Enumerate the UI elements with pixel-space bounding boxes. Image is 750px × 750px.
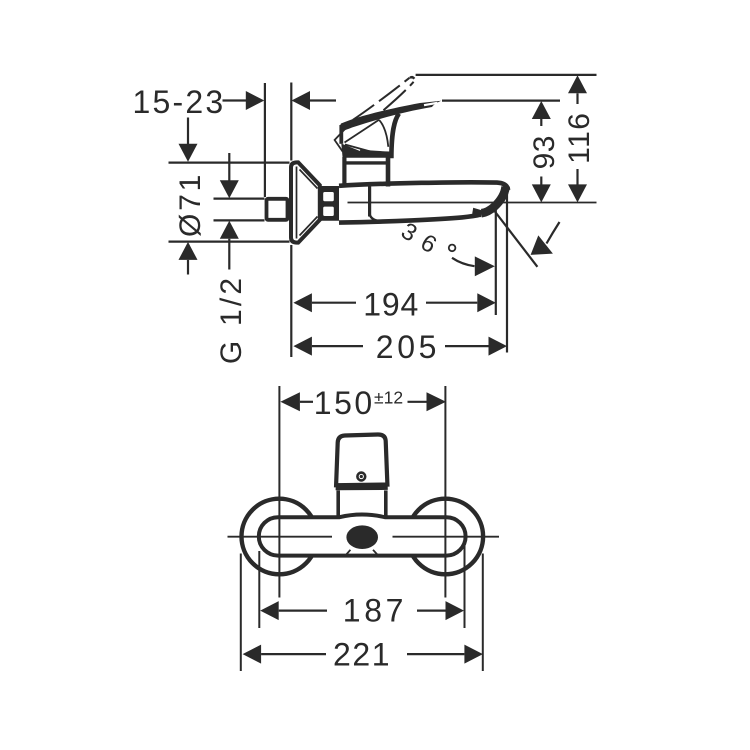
svg-text:G 1/2: G 1/2 (215, 275, 248, 364)
svg-text:187: 187 (343, 593, 407, 629)
187 dimension right arrowhead (446, 601, 465, 620)
handle screw dot (357, 473, 365, 481)
dia71 top arrowhead (179, 144, 198, 162)
G1/2 threaded nipple (267, 199, 288, 220)
93 up arrowhead (532, 101, 551, 119)
svg-text:±12: ±12 (374, 388, 403, 408)
116 lower shaft (576, 169, 578, 185)
svg-text:221: 221 (333, 636, 391, 672)
degree symbol (449, 245, 456, 252)
194 dimension left shaft (312, 302, 356, 304)
svg-text:93: 93 (528, 135, 561, 169)
15-23 dimension line left (223, 99, 247, 101)
jet direction line (495, 211, 538, 267)
lever crease to pivot (345, 120, 380, 143)
36deg arrowhead (475, 256, 495, 276)
body column left edge (342, 157, 346, 187)
205 dimension left shaft (312, 345, 363, 347)
G1/2 bottom arrowhead (220, 221, 239, 239)
horizontal centerline right (393, 536, 500, 538)
spout inner hook (370, 214, 386, 222)
221 dimension right arrowhead (464, 645, 483, 664)
bottom notch tick left (346, 550, 350, 555)
150 dimension right arrowhead (427, 392, 447, 411)
svg-text:15-23: 15-23 (133, 84, 226, 120)
left escutcheon circle (241, 499, 317, 575)
187 dimension left arrowhead (260, 601, 279, 620)
187 dimension right shaft (417, 609, 446, 611)
221 dimension right shaft (407, 653, 464, 655)
187 dimension left shaft (279, 609, 327, 611)
wall escutcheon inner slant bottom (300, 217, 318, 236)
cartridge skirt bottom edge (360, 151, 391, 153)
221 extension line right (482, 554, 484, 672)
wall escutcheon (cone flange) outer outline (291, 162, 320, 242)
lever raised-position upper dashed line (353, 78, 410, 120)
93 lower shaft (540, 177, 542, 185)
187 extension line right (464, 545, 466, 628)
93 upper shaft (540, 119, 542, 126)
15-23 extension line right (290, 83, 292, 161)
116 up arrowhead (568, 75, 587, 93)
spout bottom edge (339, 215, 481, 223)
dia71 bottom arrowhead (179, 242, 198, 260)
116 upper shaft (576, 93, 578, 104)
lever raised-position lower dashed line (384, 82, 414, 110)
dia71 bottom leader line (169, 241, 290, 243)
jet arrowhead (531, 235, 553, 255)
150 extension line right / circle centerline (444, 386, 446, 598)
handle bottom band (336, 483, 388, 490)
187 extension line left (258, 551, 260, 628)
G1/2 top arrow shaft (228, 153, 230, 181)
wall escutcheon inner slant top (300, 170, 318, 189)
svg-text:194: 194 (363, 287, 419, 323)
lever pivot triangle (335, 120, 354, 152)
spout tip face (solid) (482, 187, 506, 214)
G1/2 top arrowhead (220, 180, 239, 198)
221 dimension left shaft (261, 653, 326, 655)
G1/2 top leader line (214, 198, 265, 200)
connection block lower window (323, 207, 334, 216)
15-23 dimension line right (310, 99, 336, 101)
G1/2 bottom arrow shaft (228, 239, 230, 270)
150 dimension left shaft (300, 401, 313, 403)
lever crease down (379, 120, 388, 147)
right escutcheon circle (408, 499, 484, 575)
221 extension line left (240, 554, 242, 672)
15-23 left arrowhead (246, 91, 264, 110)
wall escutcheon inner highlight line (296, 167, 298, 239)
svg-text:116: 116 (563, 112, 596, 164)
116 top reference line (416, 74, 597, 76)
connection block upper window (323, 192, 334, 201)
neck left edge (336, 490, 340, 516)
194 extension line (495, 207, 497, 316)
221 dimension left arrowhead (243, 645, 262, 664)
150 dimension left arrowhead (280, 392, 300, 411)
center spout boss (solid oval) (346, 525, 378, 549)
lever blade (solid) (340, 101, 441, 131)
dia71 bottom arrow shaft (187, 260, 189, 275)
dia71 top arrow shaft (187, 118, 189, 145)
dia71 top leader line (169, 162, 290, 164)
svg-text:Ø71: Ø71 (174, 172, 207, 237)
cartridge cap ring (343, 161, 389, 164)
205 extension line (506, 190, 508, 353)
205 dimension right arrowhead (489, 337, 508, 356)
G1/2 bottom leader line (214, 219, 265, 221)
36deg leader curve (452, 258, 475, 266)
lever skirt top line (345, 145, 371, 152)
150 dimension right shaft (408, 401, 427, 403)
93 down arrowhead (532, 184, 551, 202)
lever pivot left edge (339, 125, 343, 144)
lever raised tip arc (410, 77, 414, 79)
horizontal centerline left (228, 536, 333, 538)
spout centerline (348, 202, 597, 204)
194 dimension right shaft (426, 302, 477, 304)
svg-text:150: 150 (314, 385, 375, 421)
194-205 left extension line (290, 245, 292, 357)
205 dimension right shaft (445, 345, 489, 347)
194 dimension right arrowhead (477, 293, 496, 312)
lever blade slit (424, 103, 437, 105)
116 down arrowhead (568, 184, 587, 202)
cartridge skirt band (341, 144, 391, 158)
handle screw dot center (360, 475, 363, 478)
spout inner vertical line (368, 187, 371, 217)
body bar capsule (259, 515, 466, 556)
S-union connection block (solid) (321, 186, 340, 221)
bottom notch tick right (373, 550, 377, 555)
93 top reference line (442, 99, 560, 101)
15-23 right arrowhead (292, 91, 311, 110)
jet leader curve (547, 222, 560, 244)
194 dimension left arrowhead (293, 293, 312, 312)
aerator nub (472, 208, 482, 218)
body column right edge (386, 157, 391, 187)
205 dimension left arrowhead (293, 337, 312, 356)
handle (front) outline (336, 434, 387, 485)
lever neck right edge (391, 114, 399, 159)
neck right edge (384, 490, 388, 516)
svg-text:205: 205 (376, 329, 440, 365)
150 extension line left / circle centerline (278, 386, 280, 598)
spout top edge (339, 182, 508, 190)
15-23 extension line left (264, 83, 266, 197)
